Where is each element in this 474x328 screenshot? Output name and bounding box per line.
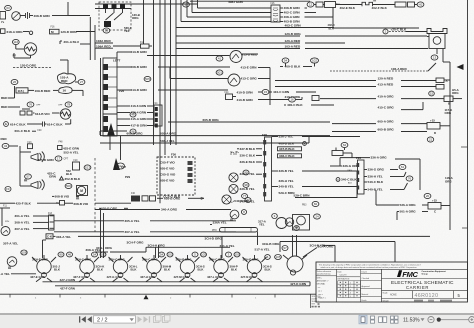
svg-text:336-B YEL: 336-B YEL xyxy=(240,187,255,191)
circle 2 with 120-C BLK dashed xyxy=(383,29,388,34)
connector 618-A ORG xyxy=(1,29,6,34)
circle 76 right xyxy=(406,176,413,181)
indicator lamp 77 xyxy=(222,195,231,204)
svg-text:340-A ORG: 340-A ORG xyxy=(161,208,178,212)
circle 15 xyxy=(262,89,269,94)
vertical feed pair C xyxy=(221,236,223,258)
connector B right xyxy=(444,96,453,102)
svg-text:3CH-E ORG: 3CH-E ORG xyxy=(243,257,260,261)
svg-text:77: 77 xyxy=(246,198,250,202)
oval junction 103-A RED xyxy=(57,73,75,84)
junction ovals near lamp L7 xyxy=(226,252,232,257)
svg-text:427-N GRN: 427-N GRN xyxy=(241,275,256,279)
svg-text:RED: RED xyxy=(1,96,8,100)
circle 11 xyxy=(183,2,190,7)
svg-text:340-B YEL: 340-B YEL xyxy=(279,185,294,189)
svg-text:RED: RED xyxy=(1,137,7,141)
wire feed into title block area xyxy=(394,261,396,263)
rh mark xyxy=(231,151,239,155)
trunk fan to F16 fuses xyxy=(198,7,272,9)
separator dashed line xyxy=(94,158,96,232)
svg-text:3PH: 3PH xyxy=(5,221,10,223)
wire 408-B GRN xyxy=(20,15,25,17)
svg-text:416-6 GRN: 416-6 GRN xyxy=(131,104,147,108)
svg-text:BLK: BLK xyxy=(131,267,138,271)
flasher circle xyxy=(7,257,17,267)
svg-text:505: 505 xyxy=(145,77,150,81)
black wedge F27 xyxy=(113,158,120,170)
svg-text:601-C BLK: 601-C BLK xyxy=(15,129,31,133)
circle 12 xyxy=(307,2,314,7)
wires entering top-left of trunk xyxy=(95,3,198,5)
blower switch contacts xyxy=(20,111,25,115)
svg-text:415-A GRN: 415-A GRN xyxy=(131,117,148,121)
wire 336-B YEL right xyxy=(272,170,279,172)
svg-text:109-B RED: 109-B RED xyxy=(35,89,52,93)
circle 20 xyxy=(424,193,431,198)
svg-text:57: 57 xyxy=(26,175,30,179)
svg-text:536-A ORG: 536-A ORG xyxy=(400,203,417,207)
bus 605-A ORG xyxy=(100,135,309,137)
svg-text:17: 17 xyxy=(57,157,61,161)
FMC logo xyxy=(397,270,402,277)
wire 402-D BLK vertical xyxy=(332,7,334,28)
svg-text:specified toleran.: specified toleran. xyxy=(317,273,332,276)
svg-text:201-A BLU: 201-A BLU xyxy=(64,40,80,44)
clearance lamp L2 xyxy=(80,259,94,273)
svg-text:427-M GRN: 427-M GRN xyxy=(174,275,189,279)
vertical feeders top-left xyxy=(89,17,91,60)
svg-text:15: 15 xyxy=(264,90,268,94)
svg-text:427-J GRN: 427-J GRN xyxy=(60,278,76,282)
circle 506 xyxy=(65,183,72,188)
circle 62 xyxy=(341,142,348,147)
svg-text:BLK: BLK xyxy=(329,27,334,31)
svg-text:116: 116 xyxy=(13,40,18,44)
svg-text:102: 102 xyxy=(167,253,172,257)
svg-text:+20-C BLK: +20-C BLK xyxy=(391,27,407,31)
wire long rear feed xyxy=(280,241,395,243)
circle 3 xyxy=(272,214,278,219)
bus 403-C GRN xyxy=(176,27,334,29)
column inner verticals xyxy=(100,58,102,136)
svg-text:ANGULAR 1 °: ANGULAR 1 ° xyxy=(317,279,329,282)
connector F26 column housing xyxy=(265,137,272,201)
svg-text:5: 5 xyxy=(350,296,351,298)
indicator lamp 98 xyxy=(229,184,238,193)
toolbar zoom out button xyxy=(428,317,434,323)
svg-text:5-10-73: 5-10-73 xyxy=(340,275,348,277)
junction ovals near lamp L8 xyxy=(265,255,271,260)
svg-text:7s: 7s xyxy=(1,20,5,24)
svg-text:BLK: BLK xyxy=(66,172,73,176)
toolbar previous page button xyxy=(87,316,92,322)
svg-text:3CH-I ORG: 3CH-I ORG xyxy=(96,246,113,250)
svg-text:408-I GRN: 408-I GRN xyxy=(228,0,244,4)
svg-text:F36: F36 xyxy=(171,153,176,157)
circle 13 xyxy=(431,55,438,60)
svg-text:OFF: OFF xyxy=(58,105,63,107)
circle 108 xyxy=(21,250,27,255)
inline connector 15 lower right xyxy=(428,203,441,210)
svg-text:402-E BLK: 402-E BLK xyxy=(340,6,356,10)
wire 340-A ORG long xyxy=(95,209,160,211)
viewer toolbar background xyxy=(0,313,474,328)
wire 408-A GRN fuse xyxy=(280,16,283,18)
svg-text:352-B BLK: 352-B BLK xyxy=(65,177,81,181)
svg-text:614-C BLK: 614-C BLK xyxy=(10,122,26,126)
P26 lower housing xyxy=(103,114,117,136)
toolbar continuous view icon xyxy=(371,316,375,323)
svg-text:27: 27 xyxy=(80,80,84,84)
svg-text:21: 21 xyxy=(429,138,433,142)
svg-text:43: 43 xyxy=(4,144,8,148)
wire 614-C BLK row xyxy=(4,122,9,127)
svg-text:336-B YEL: 336-B YEL xyxy=(279,169,294,173)
svg-text:106-A RED: 106-A RED xyxy=(391,67,407,71)
junction ovals near lamp L5 xyxy=(159,252,165,257)
svg-text:105: 105 xyxy=(201,253,206,257)
svg-text:120-A RED: 120-A RED xyxy=(285,39,301,43)
svg-text:336-J YEL: 336-J YEL xyxy=(279,135,294,139)
svg-text:305-A YEL: 305-A YEL xyxy=(125,219,140,223)
svg-text:336-G ORG: 336-G ORG xyxy=(368,168,385,172)
svg-text:3CH-H ORG: 3CH-H ORG xyxy=(148,243,166,247)
fuel tank sender cylinder xyxy=(220,228,258,233)
resistor symbol left of 408-B GRN wire xyxy=(26,12,30,19)
connector block F36 VIO dashed xyxy=(157,157,195,195)
bus 427-J GRN xyxy=(43,281,311,283)
svg-text:120-A RED: 120-A RED xyxy=(378,77,394,81)
ignition column black wedge xyxy=(107,123,115,136)
circle 48 xyxy=(130,112,136,117)
svg-text:11.53%: 11.53% xyxy=(403,317,420,323)
svg-text:RED: RED xyxy=(61,79,68,83)
clearance lamp L4 xyxy=(147,259,161,273)
transistor circle 8 xyxy=(230,210,239,219)
turn signal flasher stub xyxy=(1,227,10,236)
indicator lamp 99 xyxy=(229,173,238,182)
svg-text:15: 15 xyxy=(430,92,434,96)
wire 408-B GRN from P26 xyxy=(117,66,131,68)
svg-text:614-C BLK: 614-C BLK xyxy=(47,122,63,126)
junction ovals near lamp L6 xyxy=(192,252,198,257)
wire 403-A GRN xyxy=(117,51,131,53)
svg-text:90: 90 xyxy=(59,253,63,257)
svg-text:BLK: BLK xyxy=(97,267,104,271)
svg-text:3CH-C ORG: 3CH-C ORG xyxy=(109,257,126,261)
svg-text:410-D GRN: 410-D GRN xyxy=(237,90,254,94)
wire 417-B GRN xyxy=(117,125,130,127)
svg-text:B: B xyxy=(448,102,450,106)
svg-text:x ±: x ± xyxy=(318,287,321,289)
svg-text:427-E GRN: 427-E GRN xyxy=(30,275,45,279)
svg-text:605-B ORG: 605-B ORG xyxy=(164,196,181,200)
svg-text:336A YEL: 336A YEL xyxy=(213,221,227,225)
svg-text:103-A RED: 103-A RED xyxy=(285,45,301,49)
svg-text:301-A YEL: 301-A YEL xyxy=(15,214,30,218)
svg-text:H2: H2 xyxy=(419,3,423,7)
svg-text:Material: Material xyxy=(362,293,369,296)
svg-text:413-D GRN: 413-D GRN xyxy=(131,88,148,92)
svg-text:3CI-A ORG: 3CI-A ORG xyxy=(318,244,334,248)
svg-text:120-D ORG: 120-D ORG xyxy=(20,64,37,68)
svg-text:608-B VIO: 608-B VIO xyxy=(55,195,70,199)
svg-text:Approved: Approved xyxy=(362,285,370,288)
svg-text:108: 108 xyxy=(21,251,26,255)
svg-text:506: 506 xyxy=(66,184,71,188)
bus 427-K GRN xyxy=(55,285,310,287)
wire 416-4 GRN xyxy=(117,112,130,114)
svg-text:3: 3 xyxy=(350,289,351,291)
sheet bottom border with zone strip xyxy=(0,293,316,295)
boxed connector C-K 303-A YEL xyxy=(46,234,53,239)
svg-text:614-B VIO: 614-B VIO xyxy=(35,112,50,116)
svg-text:427-H GRN: 427-H GRN xyxy=(140,275,155,279)
rev strip left of title block xyxy=(310,294,312,308)
svg-text:3CH-P ORG: 3CH-P ORG xyxy=(176,257,193,261)
svg-text:Group: Group xyxy=(422,273,429,276)
svg-text:78: 78 xyxy=(67,103,71,107)
svg-text:115 |: 115 | xyxy=(18,89,25,93)
svg-text:336-A ORG: 336-A ORG xyxy=(371,156,388,160)
svg-text:120-D ORG: 120-D ORG xyxy=(61,30,78,34)
horn 2 xyxy=(31,182,38,189)
svg-text:501: 501 xyxy=(217,71,222,75)
starter solenoid xyxy=(316,2,323,7)
svg-text:340-C BLK: 340-C BLK xyxy=(341,178,357,182)
svg-text:24: 24 xyxy=(315,215,319,219)
svg-text:CARRIER: CARRIER xyxy=(406,285,429,290)
svg-text:425-F BLK: 425-F BLK xyxy=(16,201,32,205)
svg-text:BLK: BLK xyxy=(231,267,238,271)
svg-text:402-D: 402-D xyxy=(328,23,335,27)
svg-text:540-C BLK: 540-C BLK xyxy=(368,180,384,184)
toolbar last page button (disabled) xyxy=(144,316,151,322)
ignition switch dashed box xyxy=(99,2,131,30)
svg-text:BLK: BLK xyxy=(164,267,171,271)
clearance lamp L7 xyxy=(247,259,261,273)
border arrow marker xyxy=(457,64,464,70)
circle 15 right xyxy=(429,91,435,96)
gauge circle 41 xyxy=(230,51,242,63)
circle 17 CPT xyxy=(55,156,62,161)
toolbar single page view icon (active) xyxy=(359,315,367,324)
wiper motor xyxy=(77,186,88,196)
svg-text:ORG: ORG xyxy=(445,180,452,184)
svg-text:105: 105 xyxy=(275,255,280,259)
clearance lamp L5 xyxy=(180,259,194,273)
junction ovals near lamp L3 xyxy=(92,252,98,257)
wire 340-C BLK right mid xyxy=(336,178,340,182)
marker lamp wiring bus upper xyxy=(95,251,108,253)
svg-text:408-B GRN: 408-B GRN xyxy=(34,14,51,18)
svg-text:608-B VIO: 608-B VIO xyxy=(74,202,89,206)
svg-text:61: 61 xyxy=(401,165,405,169)
svg-text:417-B GRN: 417-B GRN xyxy=(131,124,148,128)
fuel pump assembly xyxy=(276,218,287,229)
svg-text:BLK: BLK xyxy=(265,267,272,271)
svg-text:BLK: BLK xyxy=(54,267,61,271)
svg-text:Weight: Weight xyxy=(383,299,390,302)
svg-text:54: 54 xyxy=(93,253,97,257)
svg-text:307-A YEL: 307-A YEL xyxy=(125,230,140,234)
transistor near 340 line xyxy=(235,208,237,210)
gauge circle 501 xyxy=(228,74,240,86)
svg-text:NONE: NONE xyxy=(390,295,397,297)
svg-text:2 / 2: 2 / 2 xyxy=(97,318,108,324)
svg-text:605-B ORG: 605-B ORG xyxy=(378,128,395,132)
wire 415-A GRN xyxy=(117,118,130,120)
svg-text:120-B ORG: 120-B ORG xyxy=(285,32,302,36)
circle 96b xyxy=(130,129,136,134)
wire 305-A YEL long xyxy=(54,220,124,222)
heater resistor circle xyxy=(24,43,36,55)
svg-text:410-A ORG: 410-A ORG xyxy=(378,95,395,99)
svg-text:FRACT ±: FRACT ± xyxy=(318,296,326,299)
circle 505 xyxy=(144,76,151,81)
svg-text:12: 12 xyxy=(309,3,313,7)
toolbar zoom in button xyxy=(469,317,474,323)
blower resistor circle xyxy=(60,109,70,119)
svg-text:54: 54 xyxy=(160,253,164,257)
svg-text:GRN: GRN xyxy=(49,175,57,179)
svg-text:427-K GRN: 427-K GRN xyxy=(290,282,307,286)
svg-text:540-B YEL: 540-B YEL xyxy=(368,188,383,192)
svg-text:337-B BLK: 337-B BLK xyxy=(279,147,295,151)
svg-text:RED: RED xyxy=(1,105,8,109)
svg-text:105: 105 xyxy=(234,253,239,257)
svg-text:BLK: BLK xyxy=(348,183,353,185)
svg-text:99: 99 xyxy=(244,171,248,175)
toolbar zoom slider xyxy=(437,319,469,321)
toolbar next page button (disabled) xyxy=(138,316,143,322)
toolbar two-page continuous icon xyxy=(391,316,399,323)
svg-text:336-H YEL: 336-H YEL xyxy=(368,175,383,179)
svg-text:427-F GRN: 427-F GRN xyxy=(73,275,88,279)
svg-text:Drawn: Drawn xyxy=(362,270,367,273)
svg-text:425-B GRN: 425-B GRN xyxy=(38,158,55,162)
fuse F14 column xyxy=(154,105,162,126)
svg-text:FF: FF xyxy=(6,187,10,191)
svg-text:403-C GRN: 403-C GRN xyxy=(285,24,302,28)
svg-text:20: 20 xyxy=(426,194,430,198)
svg-text:OFF: OFF xyxy=(36,105,41,107)
svg-text:403-B GRN: 403-B GRN xyxy=(284,20,301,24)
fuse F14 mid xyxy=(226,94,233,100)
svg-text:413-A RED: 413-A RED xyxy=(378,83,394,87)
rear lamp L8 xyxy=(287,256,303,272)
svg-text:F23: F23 xyxy=(356,156,361,160)
svg-text:501-A ORG: 501-A ORG xyxy=(400,210,417,214)
title block left tolerance area xyxy=(336,269,338,302)
svg-text:D: D xyxy=(434,131,436,135)
svg-text:16: 16 xyxy=(63,89,67,93)
sender 116 xyxy=(12,39,19,44)
svg-text:336-H YEL: 336-H YEL xyxy=(279,179,294,183)
svg-text:3CH-C ORG: 3CH-C ORG xyxy=(75,257,92,261)
wire 403-B GRN fuse xyxy=(280,21,283,23)
svg-text:ORG: ORG xyxy=(445,111,452,115)
svg-text:308-A YEL: 308-A YEL xyxy=(15,221,30,225)
wire 408-B GRN fuse xyxy=(280,7,283,9)
connector F23 housing xyxy=(358,160,365,194)
svg-text:76: 76 xyxy=(408,177,412,181)
svg-text:FMC: FMC xyxy=(402,270,418,279)
svg-text:46R0120: 46R0120 xyxy=(415,293,439,299)
svg-text:303-A YEL: 303-A YEL xyxy=(56,235,71,239)
svg-text:1: 1 xyxy=(350,283,351,285)
svg-text:427-F GRN: 427-F GRN xyxy=(60,286,75,290)
toolbar first page button xyxy=(79,316,86,322)
circle 58 xyxy=(103,28,110,33)
circle 21 xyxy=(427,137,433,142)
clearance lamp L6 xyxy=(214,259,228,273)
svg-text:-A YEL: -A YEL xyxy=(0,272,10,276)
circle 114 xyxy=(117,163,125,169)
svg-text:ORG: ORG xyxy=(452,91,459,95)
wire 416-6 GRN xyxy=(117,105,130,107)
svg-text:.xx ±: .xx ± xyxy=(318,290,322,292)
svg-text:F26: F26 xyxy=(262,133,267,137)
oval junction 16 xyxy=(59,87,73,94)
sender transistor xyxy=(285,218,293,226)
svg-text:+15: +15 xyxy=(432,199,437,203)
svg-text:410-# ORG: 410-# ORG xyxy=(285,95,301,99)
title block outer frame xyxy=(316,262,468,302)
svg-text:618-A ORG: 618-A ORG xyxy=(7,30,24,34)
svg-text:410-B GRN: 410-B GRN xyxy=(237,98,254,102)
svg-text:58: 58 xyxy=(105,29,109,33)
svg-text:307-A YEL: 307-A YEL xyxy=(15,227,30,231)
svg-text:13: 13 xyxy=(433,56,437,60)
connector F10 xyxy=(73,162,80,170)
wire bundle vertical trunk xyxy=(153,0,155,145)
ignition switch contacts xyxy=(103,4,108,9)
circle 24 xyxy=(314,214,321,219)
svg-text:63: 63 xyxy=(6,6,10,10)
svg-text:605-A ORG: 605-A ORG xyxy=(160,132,177,136)
connector P26 housing xyxy=(103,58,117,114)
fuse F9 lower xyxy=(131,196,140,202)
bus 605-B ORG upper xyxy=(168,121,330,123)
svg-text:11: 11 xyxy=(184,3,187,7)
circle 57 horn relay xyxy=(25,174,32,179)
svg-text:413-E GRN: 413-E GRN xyxy=(241,65,258,69)
wire 336-J YEL xyxy=(272,136,279,138)
P26 pins xyxy=(104,64,109,70)
svg-text:48: 48 xyxy=(131,113,135,117)
svg-text:M: M xyxy=(51,30,54,34)
circle 43 xyxy=(2,143,9,148)
circle 16 xyxy=(289,97,296,102)
toolbar history back icon (disabled) xyxy=(154,315,162,323)
connector H5 xyxy=(436,78,444,83)
svg-text:ORG: ORG xyxy=(347,170,352,172)
svg-text:605-A ORG: 605-A ORG xyxy=(378,120,395,124)
circle 82 xyxy=(312,201,319,206)
svg-text:YEL: YEL xyxy=(124,29,130,33)
svg-text:whole or in part, of design da: whole or in part, of design data and mat… xyxy=(321,266,418,269)
terminal block left edge xyxy=(0,12,6,20)
svg-text:337-B BLK: 337-B BLK xyxy=(240,147,256,151)
svg-text:605-A ORG: 605-A ORG xyxy=(127,132,144,136)
svg-text:Scale: Scale xyxy=(383,292,389,294)
svg-text:DECIMAL: DECIMAL xyxy=(317,282,325,285)
wire 3CH-H ORG top link xyxy=(146,246,230,248)
ground stud H2 xyxy=(395,2,406,7)
circle 27 xyxy=(78,79,85,84)
